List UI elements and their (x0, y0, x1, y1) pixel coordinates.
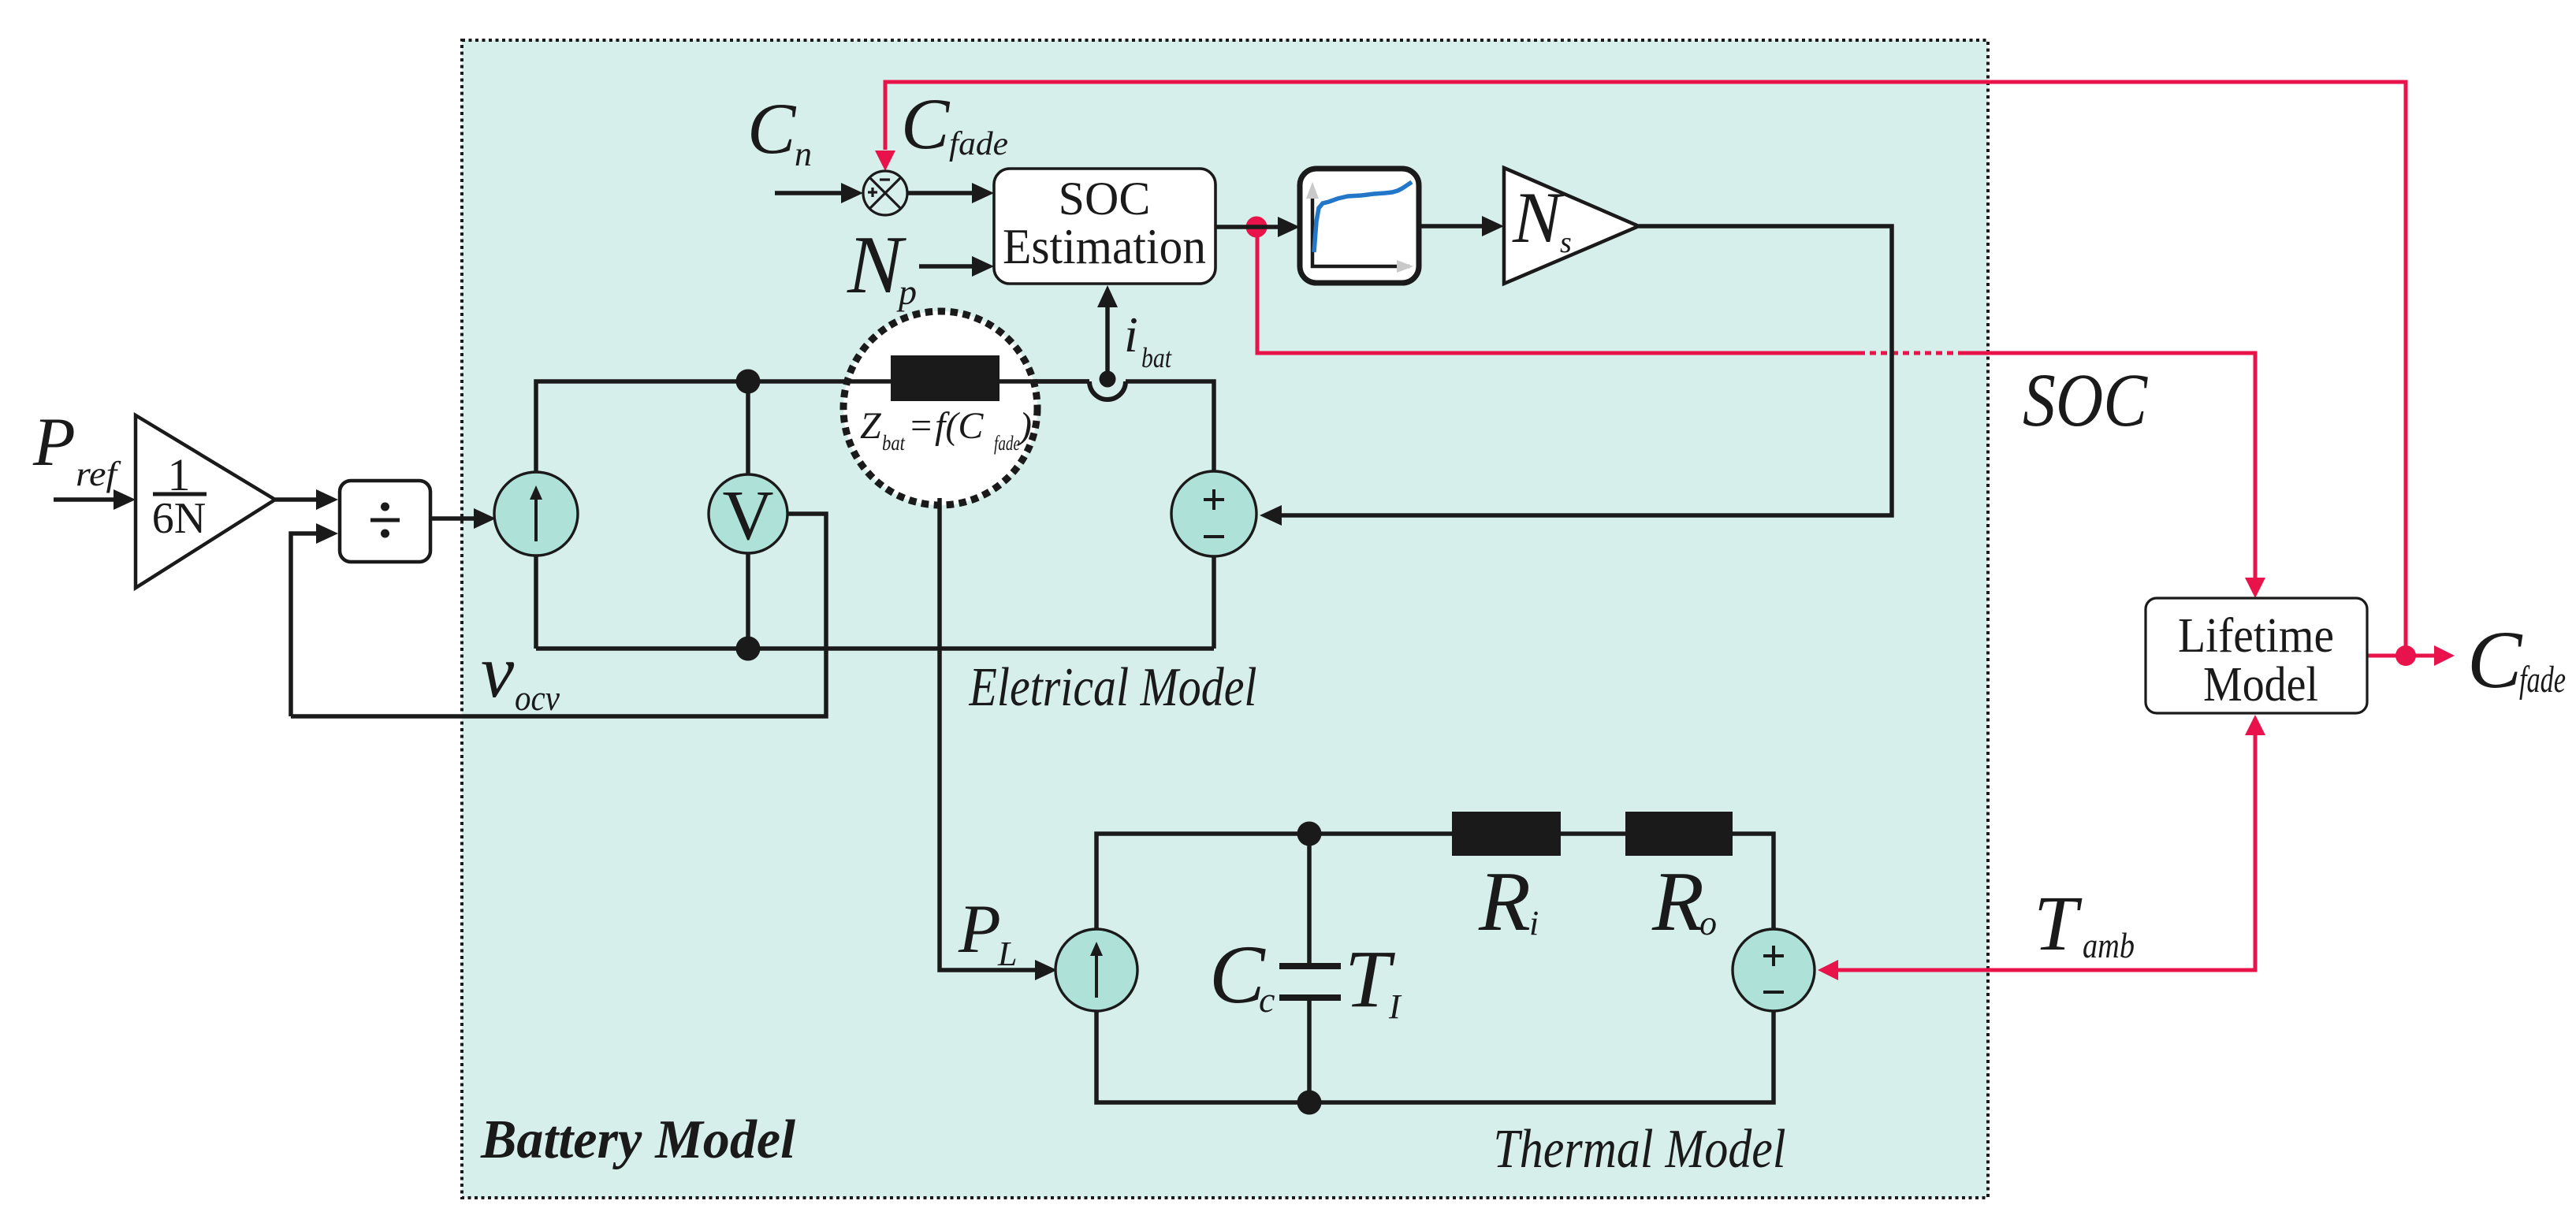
svg-text:bat: bat (882, 431, 906, 455)
current source I (electrical) (494, 472, 578, 556)
capacitor Cc (1307, 834, 1312, 963)
svg-text:fade: fade (2519, 659, 2566, 701)
svg-text:bat: bat (1141, 342, 1172, 374)
wire red Tamb line (1837, 732, 2255, 970)
wire Np into SOC box (919, 264, 973, 269)
svg-text:Z: Z (860, 405, 882, 447)
wire through impedance (843, 379, 891, 384)
current sensor loop (1089, 381, 1126, 400)
svg-text:C: C (901, 84, 951, 164)
svg-text:i: i (1529, 904, 1539, 942)
svg-text:ocv: ocv (515, 678, 560, 718)
wire thermal bottom rail (1096, 1011, 1774, 1102)
current source PL (thermal) (1055, 929, 1137, 1011)
svg-text:C: C (2467, 615, 2523, 705)
wire red SOC line (1257, 232, 2255, 579)
wire gain to divide (275, 497, 318, 502)
wire saturation to Ns (1419, 224, 1483, 229)
source vocv summing (electrical) (1171, 471, 1256, 556)
divide block (340, 481, 430, 562)
svg-text:Eletrical Model: Eletrical Model (969, 657, 1257, 718)
svg-text:SOC: SOC (1059, 173, 1151, 225)
block Lifetime Model (2146, 598, 2367, 713)
wire Ns feedback to summing source (1280, 226, 1892, 515)
wire vocv feedback into divide (291, 533, 318, 716)
wire PL drop (940, 498, 1035, 970)
node top rail junction (736, 370, 761, 394)
wire ibat arrow (1105, 306, 1110, 371)
svg-text:=: = (908, 405, 933, 447)
svg-text:R: R (1651, 855, 1704, 949)
svg-text:Battery Model: Battery Model (480, 1110, 795, 1170)
svg-text:SOC: SOC (2023, 358, 2148, 442)
wire electrical bottom rail (536, 646, 1214, 651)
voltmeter V (709, 474, 787, 553)
arrowhead red into Lifetime bottom (2245, 715, 2265, 735)
svg-text:o: o (1699, 904, 1717, 942)
svg-text:amb: amb (2083, 925, 2135, 965)
impedance Zbat dotted circle (843, 311, 1037, 505)
block SOC Estimation (994, 169, 1215, 284)
wire vocv from V meter (291, 514, 826, 716)
arrowhead red into sum (875, 151, 895, 171)
svg-text:fade: fade (949, 126, 1008, 162)
gain 1/6N triangle (136, 415, 275, 588)
wire divide to current source (430, 516, 474, 521)
svg-text:v: v (481, 630, 515, 713)
svg-text:P: P (958, 891, 1001, 968)
wire after sensor to summing source (1126, 381, 1214, 471)
wire red Cfade output (2367, 654, 2436, 658)
svg-text:V: V (723, 477, 774, 555)
svg-text:p: p (896, 272, 917, 312)
node thermal bottom (1297, 1091, 1322, 1115)
svg-text:Estimation: Estimation (1003, 219, 1206, 274)
resistor Ri (1452, 812, 1561, 856)
wire Ro to source (1733, 834, 1774, 929)
svg-text:i: i (1124, 307, 1138, 362)
svg-text:f(C: f(C (935, 405, 984, 447)
node red junction SOC out (1246, 217, 1268, 238)
svg-text:6N: 6N (152, 494, 206, 543)
wire source bottom (1212, 556, 1216, 649)
svg-text:N: N (847, 218, 906, 310)
svg-text:C: C (1209, 928, 1266, 1020)
svg-text:Lifetime: Lifetime (2178, 609, 2334, 663)
svg-text:ref: ref (76, 455, 121, 493)
resistor Zbat (891, 355, 1000, 401)
svg-text:n: n (795, 135, 812, 173)
node bottom rail junction (736, 637, 761, 661)
wire red feedback Cfade top (885, 82, 2406, 651)
wire Cn into sum (775, 191, 843, 195)
node thermal top (1297, 822, 1322, 846)
wire between Ri Ro (1561, 831, 1625, 836)
svg-text:Thermal Model: Thermal Model (1494, 1119, 1786, 1180)
svg-text:N: N (1512, 177, 1565, 258)
wire thermal top rail (1096, 834, 1452, 929)
wire Pref input (54, 497, 118, 502)
wire current source bottom (534, 556, 538, 649)
wire V meter bottom (746, 552, 750, 649)
node red junction at Cfade output (2395, 645, 2416, 666)
svg-text:fade: fade (994, 432, 1020, 455)
block saturation lookup (1300, 169, 1419, 283)
battery model boundary box (462, 40, 1988, 1198)
svg-text:L: L (997, 935, 1017, 973)
wire SOC box output (1215, 225, 1279, 229)
arrowhead red Cfade out (2434, 645, 2455, 666)
resistor Ro (1625, 812, 1733, 856)
wire V meter top (746, 381, 750, 476)
svg-text:P: P (32, 404, 76, 481)
svg-text:c: c (1259, 980, 1275, 1020)
svg-text:T: T (1345, 934, 1395, 1024)
summing junction (863, 171, 907, 215)
arrowhead red into Lifetime top (2245, 578, 2265, 598)
svg-text:T: T (2034, 879, 2083, 967)
gain Ns triangle (1504, 168, 1639, 284)
arrowhead red into thermal source (1818, 960, 1838, 980)
svg-text:I: I (1388, 987, 1402, 1026)
svg-text:Model: Model (2203, 658, 2318, 712)
source Tamb (thermal) (1733, 929, 1815, 1011)
wire electrical top rail (536, 381, 1089, 472)
svg-text:): ) (1017, 405, 1032, 447)
svg-text:C: C (747, 88, 797, 169)
svg-text:R: R (1478, 855, 1531, 949)
svg-text:s: s (1560, 226, 1572, 259)
wire sum to SOC box (907, 191, 973, 195)
